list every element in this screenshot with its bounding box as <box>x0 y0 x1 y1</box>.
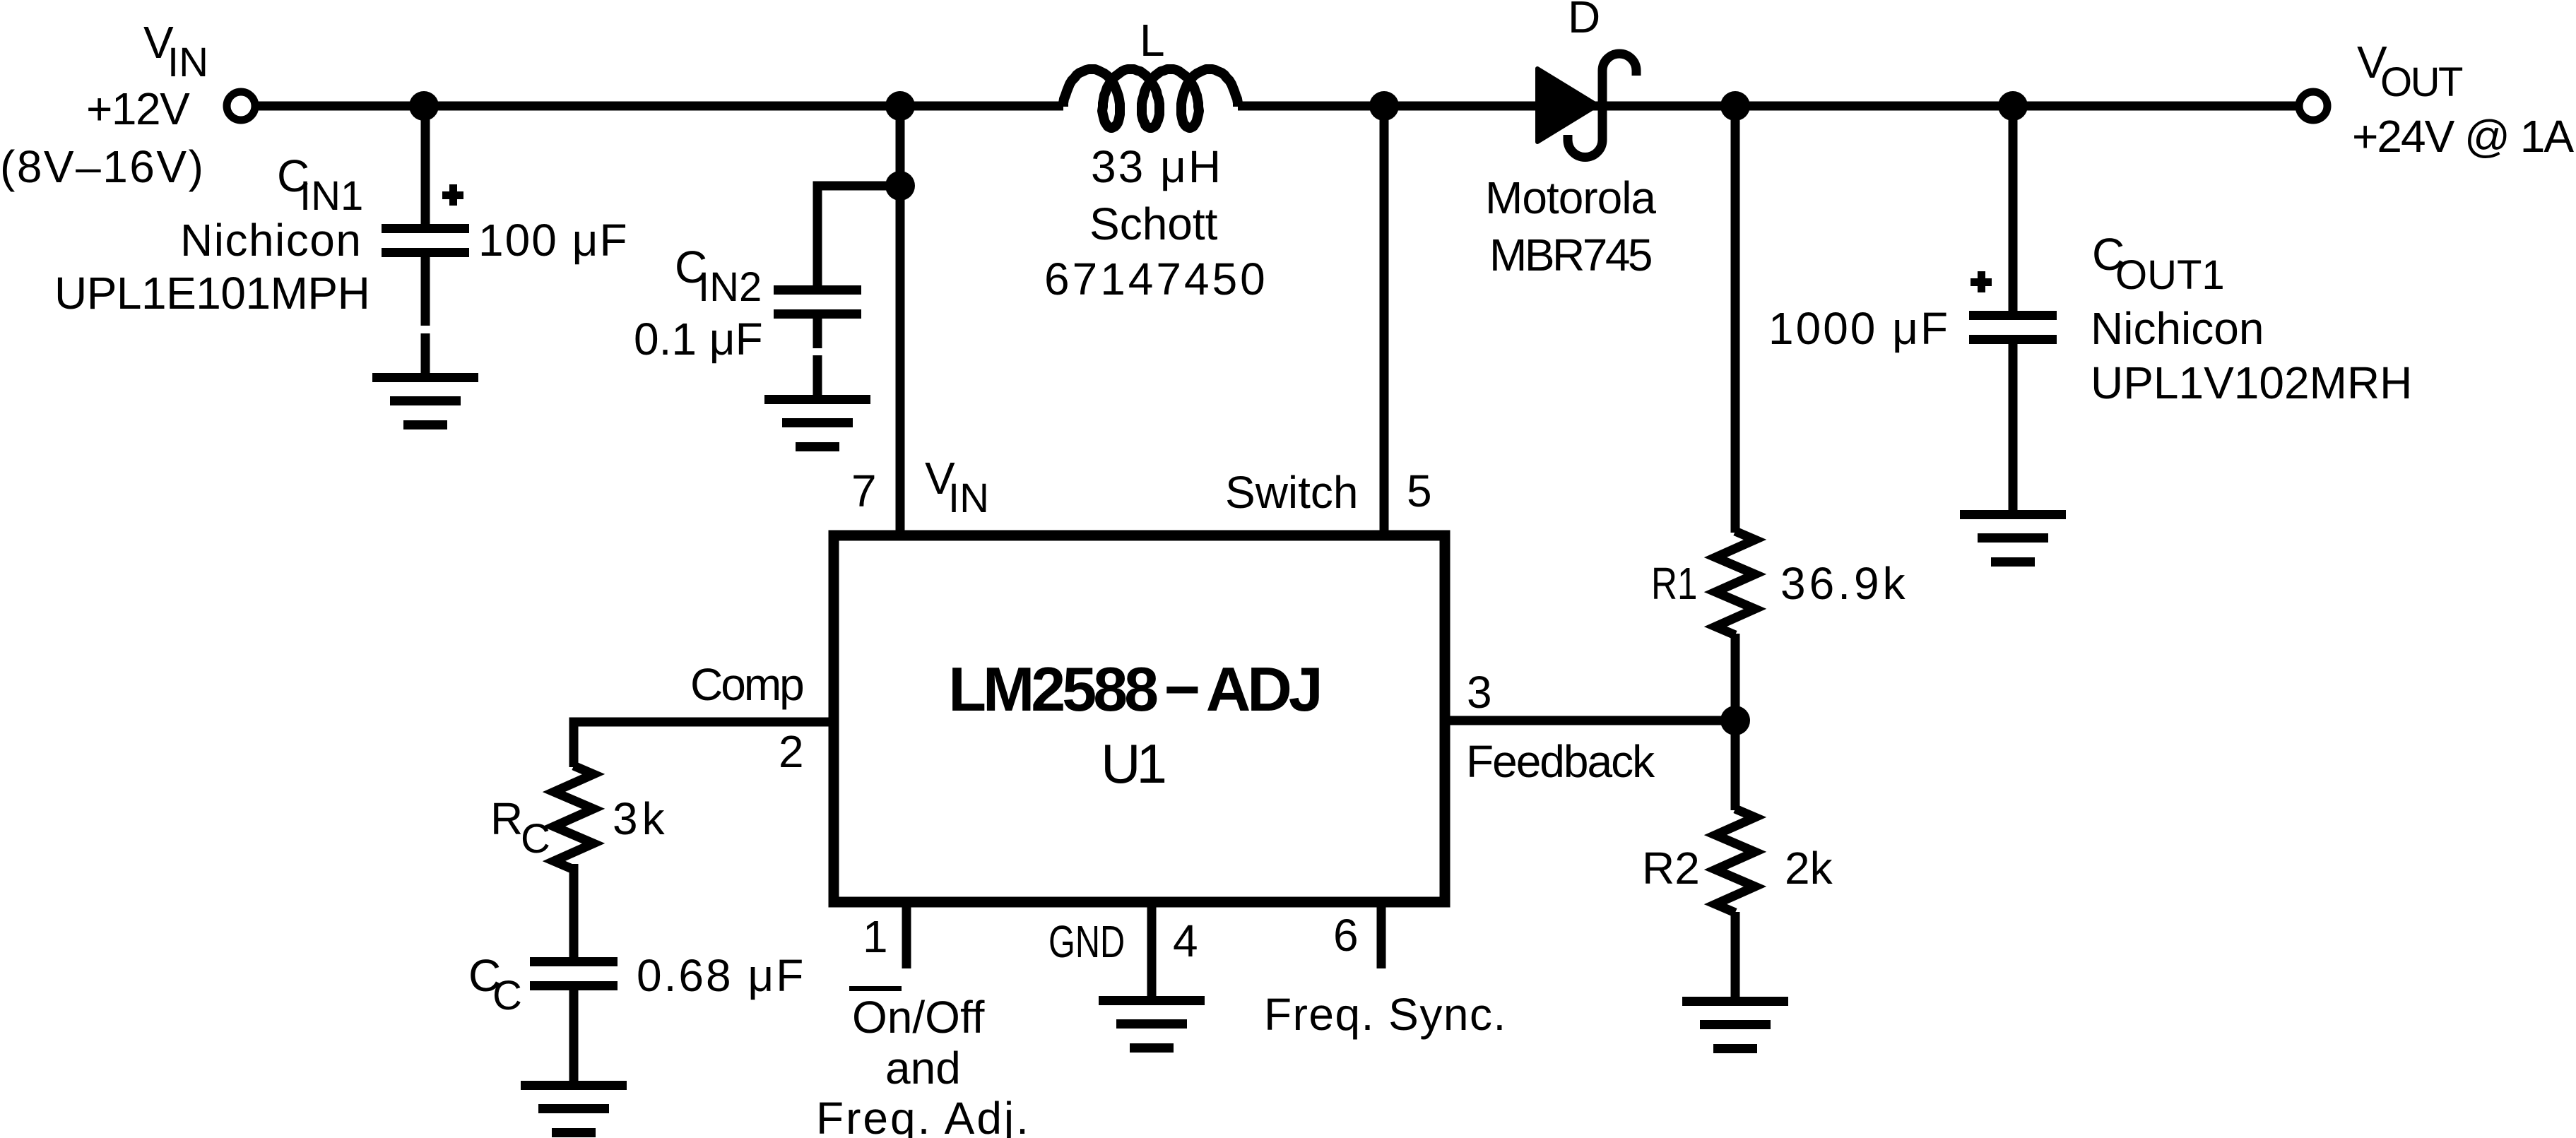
wire feedback pin3 <box>1449 716 1736 725</box>
ground R2 <box>1682 997 1788 1053</box>
svg-text:5: 5 <box>1407 466 1432 516</box>
svg-text:0.68 μF: 0.68 μF <box>637 950 805 1001</box>
wire R1 to R2 through feedback node <box>1731 634 1740 810</box>
svg-text:Freq. Adj.: Freq. Adj. <box>816 1093 1031 1138</box>
wire pin6 stub <box>1377 902 1386 968</box>
junction node switch rail <box>1369 91 1399 121</box>
IC U1 LM2588-ADJ box <box>834 535 1445 902</box>
wire CC to ground <box>569 990 579 1082</box>
svg-text:0.1 μF: 0.1 μF <box>634 314 763 364</box>
wire CIN1 lower with gap <box>421 256 430 374</box>
svg-text:36.9k: 36.9k <box>1780 558 1909 609</box>
svg-text:D: D <box>1568 0 1600 42</box>
svg-text:LM2588 − ADJ: LM2588 − ADJ <box>948 654 1320 724</box>
svg-text:L: L <box>1140 15 1165 66</box>
svg-text:67147450: 67147450 <box>1044 254 1268 304</box>
svg-text:OUT1: OUT1 <box>2115 252 2225 298</box>
svg-text:Motorola: Motorola <box>1485 172 1656 223</box>
svg-text:(8V–16V): (8V–16V) <box>0 141 205 192</box>
ground CIN2 <box>764 395 870 451</box>
svg-text:OUT: OUT <box>2380 59 2463 105</box>
wire comp pin2 <box>574 722 830 767</box>
svg-text:R: R <box>490 793 523 844</box>
svg-text:UPL1V102MRH: UPL1V102MRH <box>2091 357 2412 408</box>
label CC <box>468 950 522 1019</box>
wire R1 top drop <box>1731 106 1740 533</box>
ground CIN1 <box>372 373 478 429</box>
svg-text:+24V @ 1A: +24V @ 1A <box>2352 111 2574 162</box>
svg-text:and: and <box>885 1043 961 1093</box>
svg-text:1000 μF: 1000 μF <box>1768 303 1950 354</box>
svg-text:4: 4 <box>1173 915 1198 966</box>
junction node COUT rail <box>1998 91 2028 121</box>
svg-text:Freq. Sync.: Freq. Sync. <box>1264 989 1507 1040</box>
junction node R1 rail <box>1720 91 1750 121</box>
capacitor CIN2 plates <box>774 285 861 319</box>
ground CC <box>521 1081 627 1137</box>
svg-text:100 μF: 100 μF <box>478 215 629 266</box>
junction node feedback <box>1720 706 1750 735</box>
output terminal circle <box>2299 92 2327 120</box>
svg-text:33 μH: 33 μH <box>1091 141 1223 192</box>
svg-text:MBR745: MBR745 <box>1489 230 1651 280</box>
resistor R2 zigzag <box>1715 809 1755 913</box>
label CIN1 <box>277 150 363 219</box>
svg-text:On/Off: On/Off <box>852 992 985 1043</box>
svg-text:IN2: IN2 <box>698 264 762 310</box>
svg-text:R1: R1 <box>1651 559 1697 610</box>
svg-text:C: C <box>492 973 522 1019</box>
diode D triangle <box>1537 69 1597 142</box>
wire COUT to ground <box>2009 344 2018 511</box>
wire R2 to ground <box>1731 912 1740 998</box>
capacitor CC plates <box>530 957 618 990</box>
svg-text:Comp: Comp <box>690 659 803 710</box>
wire top rail left segment <box>257 102 1063 111</box>
wire pin4 GND stub <box>1147 902 1157 997</box>
junction node CIN1 <box>409 91 439 121</box>
wire Switch pin5 drop <box>1380 106 1389 533</box>
svg-text:UPL1E101MPH: UPL1E101MPH <box>54 268 370 319</box>
svg-text:3: 3 <box>1467 667 1492 718</box>
ground COUT1 <box>1960 510 2066 567</box>
junction node VIN rail <box>885 91 915 121</box>
svg-text:Nichicon: Nichicon <box>180 215 362 266</box>
svg-text:6: 6 <box>1333 910 1359 961</box>
svg-text:GND: GND <box>1048 918 1125 968</box>
capacitor COUT1 plates <box>1969 311 2057 344</box>
pin1 On/Off overbar <box>849 986 902 991</box>
wire CIN1 drop upper <box>421 106 430 225</box>
input terminal circle <box>227 92 255 120</box>
wire VIN pin7 drop <box>896 106 905 533</box>
svg-text:+12V: +12V <box>86 83 190 134</box>
svg-text:Feedback: Feedback <box>1466 736 1655 787</box>
svg-text:IN1: IN1 <box>300 173 363 219</box>
svg-text:IN: IN <box>167 40 208 85</box>
svg-text:2: 2 <box>779 726 804 777</box>
svg-text:IN: IN <box>948 475 989 521</box>
wire COUT drop <box>2009 106 2018 312</box>
pin VIN name <box>925 453 989 521</box>
diode D schottky cathode integral stroke <box>1568 54 1636 158</box>
svg-text:2k: 2k <box>1785 843 1833 894</box>
label COUT1 <box>2092 229 2225 298</box>
ground GND pin4 <box>1099 996 1205 1053</box>
wire top rail right segment <box>1238 102 2297 111</box>
inductor L coil <box>1063 69 1238 128</box>
wire CIN2 branch <box>817 186 900 286</box>
node label VOUT terminal <box>2357 37 2463 105</box>
label CIN2 <box>675 242 762 310</box>
wire pin1 stub <box>902 902 911 968</box>
svg-text:Nichicon: Nichicon <box>2091 303 2264 354</box>
svg-text:1: 1 <box>863 911 888 962</box>
svg-text:R2: R2 <box>1642 843 1700 894</box>
resistor R1 zigzag <box>1715 531 1755 635</box>
resistor RC zigzag <box>554 766 593 870</box>
capacitor COUT1 plus <box>1971 271 1992 292</box>
svg-text:Schott: Schott <box>1089 198 1218 249</box>
svg-text:U1: U1 <box>1101 733 1164 795</box>
wire CIN2 lower with gap <box>813 319 822 396</box>
capacitor CIN1 plus <box>442 184 463 206</box>
label RC <box>490 793 550 862</box>
svg-text:C: C <box>521 816 550 862</box>
svg-text:3k: 3k <box>613 793 669 844</box>
svg-text:7: 7 <box>851 466 877 516</box>
wire RC to CC <box>569 864 579 959</box>
capacitor CIN1 plates <box>382 224 469 257</box>
svg-text:Switch: Switch <box>1225 467 1359 518</box>
junction node CIN2 tap <box>885 171 915 201</box>
node label VIN terminal <box>143 17 208 85</box>
